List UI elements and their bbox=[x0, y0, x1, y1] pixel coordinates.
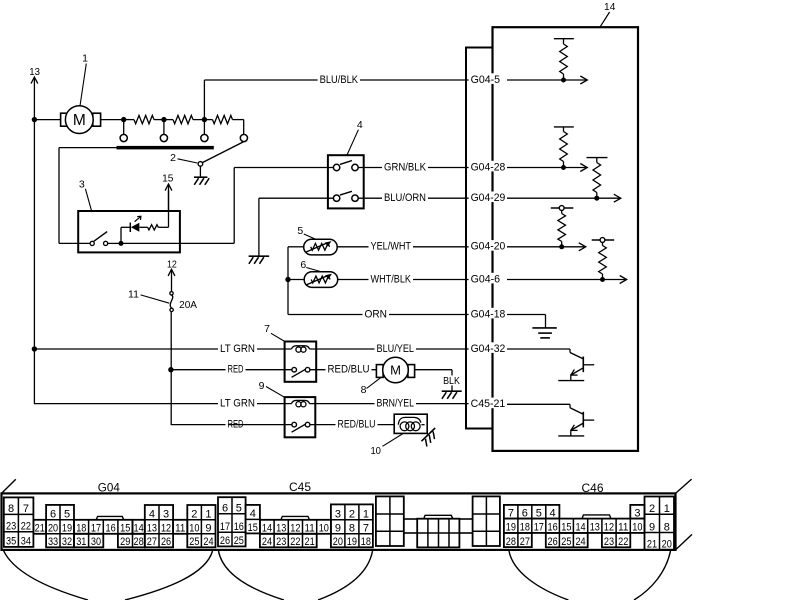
switch lever box3 bbox=[94, 232, 107, 242]
strip corner bottom-right bbox=[676, 534, 693, 550]
box4 top lever bbox=[340, 161, 352, 165]
wire WHT/BLK bbox=[338, 279, 470, 281]
C46 pins 28 27 bbox=[504, 533, 532, 548]
label BRN/YEL bbox=[375, 397, 417, 409]
C45 pins 3 2 1 9 8 7 20 19 18 bbox=[331, 504, 373, 548]
fuse element bbox=[170, 295, 173, 308]
svg-text:5: 5 bbox=[64, 509, 70, 521]
wire resistor to riser bbox=[158, 211, 168, 227]
box4 bottom lever bbox=[340, 191, 352, 195]
label YEL/WHT bbox=[369, 240, 414, 252]
svg-text:6: 6 bbox=[300, 259, 306, 271]
pin label G04-18 bbox=[469, 308, 510, 321]
wire bar to left drop bbox=[59, 147, 117, 149]
label RED row8 bbox=[226, 418, 246, 430]
svg-text:RED/BLU: RED/BLU bbox=[338, 419, 376, 431]
label BLU/ORN bbox=[382, 192, 428, 204]
fuse bottom circle bbox=[170, 308, 173, 311]
label 20A bbox=[179, 299, 197, 311]
svg-text:22: 22 bbox=[290, 536, 300, 548]
wire riser above box 3 bbox=[168, 190, 170, 211]
label 5 bbox=[297, 225, 303, 237]
wire G04-6 to pull-up bbox=[507, 279, 603, 281]
ground at actuator 10 bbox=[421, 428, 440, 447]
wire pivot to ground bbox=[199, 166, 201, 176]
svg-text:3: 3 bbox=[163, 509, 169, 521]
label 12 bbox=[167, 258, 177, 270]
C46 pins 23 22 bbox=[602, 533, 630, 548]
motor M8 body bbox=[383, 357, 409, 383]
svg-text:31: 31 bbox=[76, 536, 86, 548]
junction dot box3 bbox=[119, 241, 124, 246]
wire YEL/WHT bbox=[337, 246, 470, 248]
thermistor 5 element bbox=[305, 241, 331, 252]
svg-text:GRN/BLK: GRN/BLK bbox=[384, 161, 427, 173]
wire G04-28 to pull-up bbox=[507, 167, 564, 169]
blank connector C bbox=[473, 496, 500, 546]
wire relay7 out RED/BLU bbox=[310, 369, 377, 371]
svg-text:8: 8 bbox=[349, 523, 355, 535]
svg-text:3: 3 bbox=[335, 509, 341, 521]
svg-text:1: 1 bbox=[205, 509, 211, 521]
blower resistor R1 bbox=[124, 115, 164, 123]
motor M1 right terminal bbox=[93, 113, 101, 126]
motor M8 right terminal bbox=[408, 365, 415, 378]
actuator 10 box bbox=[394, 414, 427, 433]
svg-text:35: 35 bbox=[6, 536, 16, 548]
terminal stub 3 bbox=[203, 120, 205, 135]
terminal circle 4 bbox=[240, 134, 247, 141]
fuse top circle bbox=[170, 292, 173, 295]
wire box4 bottom left bbox=[259, 198, 334, 255]
svg-text:12: 12 bbox=[167, 258, 177, 270]
pin label G04-6 bbox=[469, 273, 505, 286]
svg-text:G04-32: G04-32 bbox=[471, 343, 506, 355]
label 1 bbox=[82, 53, 88, 65]
svg-text:21: 21 bbox=[305, 536, 315, 548]
transistor Q2 bbox=[558, 404, 594, 436]
blank B key bump bbox=[424, 515, 453, 518]
label 11 bbox=[128, 289, 139, 301]
relay 9 box bbox=[285, 397, 316, 437]
wire ORN bbox=[288, 314, 470, 316]
actuator 10 coil bbox=[398, 417, 424, 430]
svg-text:10: 10 bbox=[370, 445, 381, 457]
selector pivot circle bbox=[198, 162, 203, 167]
svg-text:19: 19 bbox=[506, 522, 516, 534]
svg-text:28: 28 bbox=[134, 536, 144, 548]
harness curve C45 right bbox=[318, 551, 373, 600]
label 10 bbox=[370, 445, 381, 457]
junction dot G04-5 bbox=[561, 78, 566, 83]
svg-text:15: 15 bbox=[120, 523, 130, 535]
thermistor 5 body bbox=[304, 239, 338, 255]
wire tap 3 to BLU/BLK row bbox=[204, 80, 470, 120]
svg-text:18: 18 bbox=[361, 536, 371, 548]
svg-text:5: 5 bbox=[236, 503, 242, 515]
svg-text:16: 16 bbox=[106, 523, 116, 535]
G04 key bump bbox=[96, 516, 124, 519]
svg-text:G04: G04 bbox=[98, 482, 121, 494]
leader line label 2 bbox=[178, 159, 198, 163]
terminal circle 3 bbox=[201, 134, 208, 141]
junction dot tap 2 bbox=[161, 117, 166, 122]
wire motor feed bbox=[34, 119, 60, 121]
svg-text:6: 6 bbox=[222, 503, 228, 515]
ground at box4 bbox=[249, 256, 270, 264]
box4 bottom contact a bbox=[333, 195, 339, 201]
leader line label 4 bbox=[347, 130, 358, 155]
arrow G04-28 bbox=[564, 164, 588, 172]
svg-text:26: 26 bbox=[220, 535, 230, 547]
label GRN/BLK bbox=[382, 161, 428, 173]
svg-text:21: 21 bbox=[647, 539, 657, 551]
label WHT/BLK bbox=[369, 273, 414, 285]
wire relay9 coil out BRN/YEL bbox=[310, 403, 471, 405]
svg-text:4: 4 bbox=[357, 119, 363, 131]
pin label C45-21 bbox=[469, 398, 510, 411]
wire LT GRN relay9 bbox=[221, 403, 292, 405]
svg-text:BLK: BLK bbox=[443, 375, 460, 387]
svg-text:13: 13 bbox=[276, 523, 286, 535]
ground BLK bbox=[442, 391, 462, 399]
leader line label 14 bbox=[600, 12, 609, 27]
label 2 bbox=[170, 152, 176, 164]
wire G04-20 to pull-up bbox=[507, 246, 562, 248]
svg-text:BLU/YEL: BLU/YEL bbox=[377, 343, 415, 355]
label RED/BLU row8 bbox=[336, 418, 378, 430]
thermistor 6 element bbox=[306, 274, 332, 285]
pull-up resistor G04-5 bbox=[554, 39, 574, 80]
G04 pins 4 3 13 12 27 26 bbox=[145, 505, 173, 548]
G04 pins 18 17 16 15 bbox=[74, 520, 133, 535]
svg-text:17: 17 bbox=[534, 522, 544, 534]
arrow up node 15 bbox=[165, 184, 172, 211]
terminal circle 2 bbox=[160, 134, 167, 141]
junction dot LT GRN row bbox=[32, 346, 37, 351]
box 3 outline bbox=[78, 211, 180, 252]
relay 7 contact b bbox=[305, 367, 310, 372]
wire box3 output right bbox=[121, 242, 234, 244]
LED light arrow bbox=[135, 216, 141, 221]
resistor in box 3 bbox=[148, 225, 159, 230]
svg-text:1: 1 bbox=[664, 503, 670, 515]
wire contact b to dot bbox=[108, 242, 121, 244]
box4 top contact a bbox=[333, 164, 339, 170]
svg-text:25: 25 bbox=[561, 536, 571, 548]
svg-text:14: 14 bbox=[262, 523, 272, 535]
svg-text:14: 14 bbox=[575, 522, 585, 534]
svg-text:M: M bbox=[73, 112, 86, 129]
strip corner top-right bbox=[676, 479, 692, 493]
svg-text:C45-21: C45-21 bbox=[471, 398, 506, 410]
wire motor8 to BLK ground bbox=[415, 370, 452, 391]
C45 pins 4 15 bbox=[246, 505, 260, 534]
label G04 header bbox=[98, 482, 121, 494]
svg-text:11: 11 bbox=[128, 289, 139, 301]
svg-text:9: 9 bbox=[649, 521, 655, 533]
label 8 bbox=[361, 384, 367, 396]
relay 9 contact a bbox=[292, 422, 297, 427]
terminal stub 1 bbox=[123, 120, 125, 135]
svg-text:3: 3 bbox=[634, 507, 640, 519]
svg-text:12: 12 bbox=[604, 522, 614, 534]
wire fuse down bbox=[170, 312, 172, 425]
wire C45-21 to transistor bbox=[507, 403, 570, 405]
G04 pins 2 1 10 9 25 24 bbox=[187, 505, 215, 548]
C46 key bump bbox=[582, 515, 611, 519]
switch contact b box3 bbox=[104, 241, 108, 245]
box4 top contact b bbox=[352, 164, 358, 170]
harness curve G04 right bbox=[125, 551, 213, 600]
label 6 bbox=[300, 259, 306, 271]
wire left drop to switch box bbox=[58, 148, 60, 244]
svg-text:RED: RED bbox=[228, 364, 244, 376]
svg-text:BRN/YEL: BRN/YEL bbox=[377, 398, 415, 410]
svg-text:C45: C45 bbox=[289, 482, 311, 494]
svg-text:27: 27 bbox=[520, 536, 530, 548]
label 3 bbox=[79, 179, 85, 191]
svg-text:21: 21 bbox=[35, 523, 45, 535]
blank connector A bbox=[376, 496, 404, 546]
relay 9 coil bbox=[292, 400, 310, 406]
arrow G04-6 bbox=[603, 276, 627, 284]
svg-text:16: 16 bbox=[234, 521, 244, 533]
svg-text:11: 11 bbox=[618, 522, 628, 534]
svg-text:G04-29: G04-29 bbox=[471, 192, 506, 204]
motor M1 left terminal bbox=[61, 113, 69, 126]
arrow G04-20 bbox=[562, 243, 586, 251]
harness curve C46 right bbox=[634, 551, 671, 600]
svg-text:34: 34 bbox=[21, 536, 31, 548]
svg-text:ORN: ORN bbox=[365, 308, 388, 320]
LED cathode bar bbox=[129, 223, 131, 232]
svg-text:30: 30 bbox=[91, 536, 101, 548]
label BLK bbox=[441, 375, 462, 387]
C46 pins 2 1 9 8 21 20 bbox=[645, 497, 675, 551]
svg-text:14: 14 bbox=[134, 523, 144, 535]
relay 7 contact a bbox=[292, 367, 297, 372]
leader line label 7 bbox=[271, 333, 285, 341]
wire riser to GRN/BLK row bbox=[233, 168, 235, 244]
svg-text:2: 2 bbox=[191, 509, 197, 521]
motor M8 left terminal bbox=[376, 365, 383, 378]
label BLU/YEL bbox=[375, 343, 417, 355]
pin label G04-28 bbox=[469, 161, 510, 174]
label C45 header bbox=[289, 482, 311, 494]
svg-text:14: 14 bbox=[604, 1, 615, 13]
C46 pins 7 6 5 4 bbox=[504, 505, 560, 520]
svg-text:YEL/WHT: YEL/WHT bbox=[371, 241, 412, 253]
blank connector B bbox=[417, 519, 459, 548]
svg-text:13: 13 bbox=[147, 523, 157, 535]
wire chain end corner bbox=[243, 120, 245, 135]
pin label G04-20 bbox=[469, 240, 510, 253]
terminal circle 1 bbox=[120, 134, 127, 141]
svg-text:G04-6: G04-6 bbox=[471, 273, 501, 285]
svg-text:20: 20 bbox=[48, 523, 58, 535]
svg-text:24: 24 bbox=[262, 536, 272, 548]
wire G04-29 to pull-up bbox=[507, 197, 597, 199]
C45 key bump bbox=[281, 516, 310, 519]
junction dot RED row bbox=[168, 367, 173, 372]
relay 7 coil bbox=[292, 346, 310, 352]
G04 pin 14 bbox=[133, 520, 145, 535]
label 4 bbox=[357, 119, 363, 131]
svg-text:9: 9 bbox=[205, 523, 211, 535]
svg-text:LT GRN: LT GRN bbox=[220, 398, 255, 410]
ECU box 14 bbox=[493, 27, 639, 451]
leader line label 6 bbox=[306, 268, 320, 272]
C45 pins 14 13 12 11 10 bbox=[260, 520, 331, 535]
svg-text:33: 33 bbox=[48, 536, 58, 548]
relay 7 box bbox=[285, 342, 317, 382]
motor M1 body bbox=[65, 106, 93, 134]
svg-text:5: 5 bbox=[297, 225, 303, 237]
label ORN bbox=[363, 308, 390, 320]
svg-text:G04-20: G04-20 bbox=[471, 241, 506, 253]
ground at selector bbox=[194, 177, 209, 185]
pull-up resistor G04-28 bbox=[554, 127, 574, 168]
arrow G04-29 bbox=[597, 194, 621, 202]
svg-text:20: 20 bbox=[662, 539, 672, 551]
junction dot G04-20 bbox=[559, 244, 564, 249]
svg-text:4: 4 bbox=[550, 507, 556, 519]
arrow G04-5 bbox=[564, 76, 588, 84]
C46 pins 26 25 24 bbox=[546, 533, 588, 548]
svg-text:4: 4 bbox=[149, 509, 155, 521]
pull-up resistor G04-20 bbox=[551, 206, 574, 247]
svg-text:15: 15 bbox=[561, 522, 571, 534]
wire riser into box4 top pin bbox=[234, 167, 333, 169]
svg-text:25: 25 bbox=[234, 535, 244, 547]
relay 9 lever bbox=[292, 424, 306, 432]
svg-text:24: 24 bbox=[575, 536, 585, 548]
svg-text:22: 22 bbox=[21, 521, 31, 533]
svg-text:15: 15 bbox=[162, 172, 173, 184]
svg-text:25: 25 bbox=[189, 536, 199, 548]
label 13 bbox=[29, 66, 40, 78]
pin label G04-5 bbox=[469, 73, 505, 86]
wire 5 left bbox=[288, 247, 304, 315]
wire RED row relay 7 bbox=[171, 369, 292, 371]
arrow up node 12 bbox=[168, 269, 175, 291]
G04 pins 29 28 bbox=[118, 534, 145, 548]
wire relay7 coil out BLU/YEL bbox=[310, 348, 471, 350]
svg-text:15: 15 bbox=[248, 522, 258, 534]
blower resistor R3 bbox=[204, 115, 243, 123]
svg-text:10: 10 bbox=[189, 523, 199, 535]
G04 pins 6 5 20 19 33 32 bbox=[46, 505, 74, 548]
label 9 bbox=[259, 380, 265, 392]
svg-text:BLU/BLK: BLU/BLK bbox=[320, 74, 359, 86]
svg-text:18: 18 bbox=[520, 522, 530, 534]
C45 pins 6 5 17 16 26 25 bbox=[218, 497, 246, 547]
svg-text:WHT/BLK: WHT/BLK bbox=[371, 273, 412, 285]
label LT GRN row7 bbox=[218, 343, 257, 355]
label RED row7 bbox=[226, 363, 246, 375]
svg-text:16: 16 bbox=[548, 522, 558, 534]
harness curve C46 left bbox=[509, 551, 568, 600]
wire BLU/ORN bbox=[358, 197, 470, 199]
wire relay9 out RED/BLU bbox=[310, 424, 394, 426]
svg-text:23: 23 bbox=[604, 536, 614, 548]
svg-text:1: 1 bbox=[82, 53, 88, 65]
C46 pin 3 bbox=[630, 505, 644, 520]
switch contact a box3 bbox=[90, 241, 94, 245]
svg-text:2: 2 bbox=[349, 509, 355, 521]
relay 9 contact b bbox=[305, 422, 310, 427]
svg-text:8: 8 bbox=[8, 503, 14, 515]
wire G04-18 to ground bbox=[507, 315, 546, 328]
wire into box 3 bbox=[59, 242, 90, 244]
svg-text:2: 2 bbox=[170, 152, 176, 164]
leader line label 8 bbox=[367, 378, 381, 389]
svg-text:12: 12 bbox=[290, 523, 300, 535]
svg-text:20: 20 bbox=[333, 536, 343, 548]
svg-text:17: 17 bbox=[91, 523, 101, 535]
leader line label 10 bbox=[383, 433, 404, 446]
svg-text:8: 8 bbox=[664, 521, 670, 533]
label LT GRN row8 bbox=[218, 397, 257, 409]
svg-text:3: 3 bbox=[79, 179, 85, 191]
svg-text:29: 29 bbox=[120, 536, 130, 548]
selector contact bar bbox=[117, 146, 214, 150]
svg-text:8: 8 bbox=[361, 384, 367, 396]
svg-text:23: 23 bbox=[276, 536, 286, 548]
pin label G04-29 bbox=[469, 192, 510, 205]
wire corner to RED relay 9 row bbox=[171, 424, 228, 426]
svg-text:7: 7 bbox=[23, 503, 29, 515]
harness curve C45 left bbox=[219, 551, 285, 600]
strip corner top-left bbox=[2, 479, 16, 493]
pull-up resistor G04-6 bbox=[592, 238, 615, 280]
svg-text:10: 10 bbox=[319, 523, 329, 535]
C46 pins 19 18 17 16 15 14 13 12 11 10 bbox=[504, 519, 645, 534]
svg-text:G04-18: G04-18 bbox=[471, 308, 506, 320]
label BLU/BLK bbox=[318, 74, 360, 86]
label C46 header bbox=[582, 483, 604, 495]
wire left vertical bus bbox=[33, 120, 35, 405]
svg-text:C46: C46 bbox=[582, 483, 604, 495]
svg-text:7: 7 bbox=[508, 507, 514, 519]
junction dot WHT/BLK row bbox=[285, 277, 290, 282]
harness curve G04 left bbox=[4, 551, 89, 600]
LED triangle bbox=[131, 223, 139, 232]
wire RED relay9 bbox=[228, 424, 292, 426]
svg-text:27: 27 bbox=[147, 536, 157, 548]
svg-text:24: 24 bbox=[203, 536, 213, 548]
wire LT GRN relay7 bbox=[34, 348, 291, 350]
svg-text:20A: 20A bbox=[179, 299, 197, 311]
blank mid cell left bbox=[404, 519, 417, 533]
svg-text:RED/BLU: RED/BLU bbox=[328, 364, 370, 376]
svg-text:19: 19 bbox=[347, 536, 357, 548]
svg-text:5: 5 bbox=[536, 507, 542, 519]
svg-text:11: 11 bbox=[175, 523, 185, 535]
transistor Q1 bbox=[558, 349, 594, 381]
svg-text:1: 1 bbox=[363, 509, 369, 521]
junction dot tap 1 bbox=[121, 117, 126, 122]
svg-text:26: 26 bbox=[548, 536, 558, 548]
wire 6 left bbox=[288, 279, 304, 281]
wire G04-5 to pull-up bbox=[507, 79, 564, 81]
svg-text:32: 32 bbox=[62, 536, 72, 548]
junction dot motor feed bbox=[32, 117, 37, 122]
G04 pin 11 bbox=[173, 520, 187, 535]
box 4 outline bbox=[328, 155, 364, 208]
ECU ground G04-18 bbox=[532, 328, 556, 338]
